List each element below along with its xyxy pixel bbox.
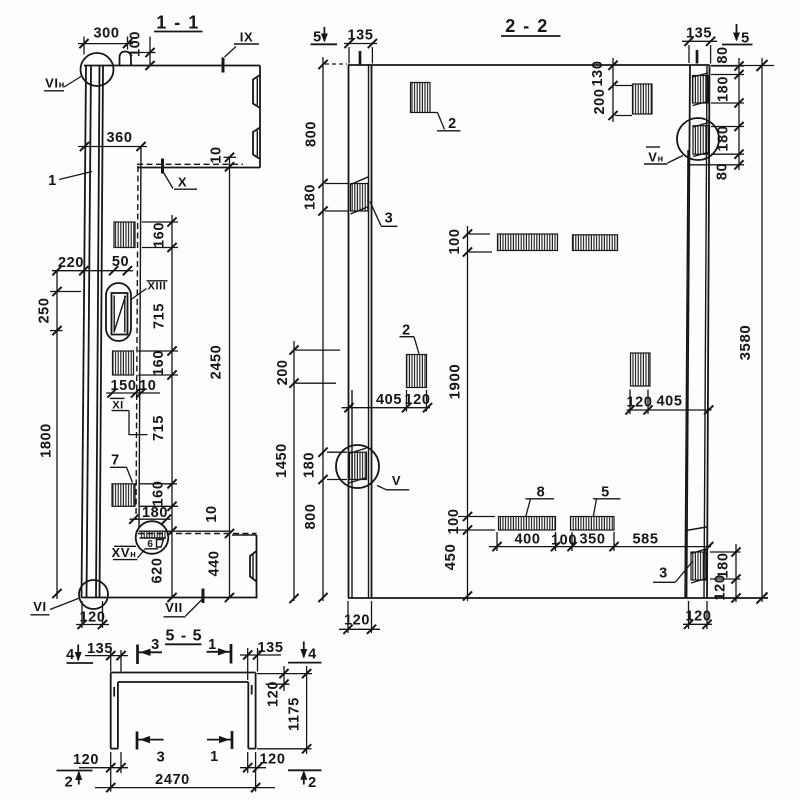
right column line 4 bbox=[707, 65, 710, 598]
svg-text:120: 120 bbox=[344, 613, 370, 629]
top flange hidden edge dashed bbox=[137, 163, 243, 165]
svg-text:3: 3 bbox=[385, 211, 394, 227]
rib line 1 bbox=[82, 66, 87, 598]
part label 5 bbox=[593, 485, 621, 517]
dimension 135 top right 5-5 bbox=[240, 640, 284, 680]
svg-text:10: 10 bbox=[139, 378, 156, 394]
rib inner solid line bbox=[139, 147, 141, 527]
dimension 135 right 2-2 bbox=[682, 26, 717, 64]
svg-text:4: 4 bbox=[308, 647, 317, 663]
dimension chain 160-715 bbox=[150, 215, 177, 602]
panel 1-1 right edge bbox=[259, 66, 261, 168]
svg-text:1: 1 bbox=[48, 173, 57, 189]
section arrow 5 right bbox=[722, 24, 753, 47]
svg-text:800: 800 bbox=[304, 121, 320, 147]
embedded item 2 middle right bbox=[631, 353, 651, 386]
dimension 120 bottom left bbox=[76, 601, 109, 629]
svg-text:135: 135 bbox=[258, 640, 284, 656]
svg-text:3: 3 bbox=[157, 750, 166, 766]
svg-text:120: 120 bbox=[686, 609, 712, 625]
svg-text:5 - 5: 5 - 5 bbox=[165, 628, 202, 645]
embedded item 3 left column top bbox=[351, 177, 369, 214]
dimension row 400-100-350-585 bbox=[489, 532, 713, 552]
node label XI bbox=[110, 398, 148, 434]
top flange bottom edge bbox=[137, 167, 260, 169]
dimension chain 200-1450 bbox=[274, 341, 340, 603]
node label VII bbox=[164, 589, 204, 617]
embedded item hatch mid bbox=[113, 351, 134, 375]
svg-text:4: 4 bbox=[66, 647, 75, 663]
part label 3 left bbox=[370, 202, 398, 227]
svg-text:300: 300 bbox=[94, 26, 120, 42]
rib line 3 bbox=[96, 66, 100, 598]
svg-text:1: 1 bbox=[210, 749, 219, 765]
section arrow 5 left bbox=[311, 27, 338, 46]
dimension 360 bbox=[78, 130, 147, 151]
svg-text:5: 5 bbox=[313, 30, 322, 46]
svg-text:135: 135 bbox=[348, 28, 374, 44]
svg-text:3: 3 bbox=[659, 566, 668, 582]
keyway notch upper right 1 bbox=[253, 75, 260, 108]
view 2-2 title bbox=[501, 16, 561, 36]
section arrow 3 top bbox=[138, 637, 163, 664]
svg-text:120: 120 bbox=[266, 681, 282, 707]
svg-text:160: 160 bbox=[151, 350, 167, 376]
svg-text:50: 50 bbox=[112, 254, 129, 270]
extension lines chain 160-715 bbox=[138, 222, 178, 506]
node label V bbox=[377, 473, 409, 490]
svg-text:1900: 1900 bbox=[447, 364, 464, 400]
node circle Vn bbox=[677, 118, 719, 160]
embedded item XIII oval bbox=[106, 283, 131, 341]
svg-text:80: 80 bbox=[715, 46, 731, 63]
svg-text:120: 120 bbox=[73, 752, 99, 768]
lifting loop bbox=[120, 52, 132, 66]
node circle V bbox=[336, 445, 379, 488]
svg-text:405: 405 bbox=[376, 392, 402, 408]
embedded item hatch top bbox=[114, 222, 135, 248]
svg-text:IX: IX bbox=[240, 30, 253, 45]
dimension 150 and 10 bbox=[106, 378, 160, 397]
svg-text:7: 7 bbox=[111, 453, 120, 469]
dimension chain 180-120 bottom right bbox=[710, 544, 741, 603]
svg-text:130: 130 bbox=[590, 61, 606, 87]
svg-text:715: 715 bbox=[151, 415, 167, 441]
svg-text:200: 200 bbox=[275, 359, 291, 385]
svg-text:450: 450 bbox=[442, 544, 459, 571]
panel 2-2 bottom edge bbox=[348, 597, 768, 599]
svg-text:350: 350 bbox=[580, 532, 606, 548]
dimension 120 bottom right 5-5 bbox=[240, 752, 286, 792]
dimension 135 left 2-2 bbox=[344, 28, 377, 64]
section arrow 2 left bbox=[57, 771, 93, 791]
hatch strip mid row 2 bbox=[573, 235, 618, 251]
node circle XVn bbox=[136, 521, 169, 554]
svg-text:800: 800 bbox=[303, 504, 319, 530]
svg-text:X: X bbox=[178, 175, 187, 190]
embedded item B right column bbox=[693, 123, 709, 157]
svg-text:XIII: XIII bbox=[148, 281, 167, 293]
svg-text:1175: 1175 bbox=[287, 697, 303, 731]
dimension 180 at XVn bbox=[129, 505, 171, 524]
svg-text:100: 100 bbox=[128, 31, 144, 57]
svg-text:120: 120 bbox=[260, 752, 286, 768]
svg-text:2: 2 bbox=[308, 775, 317, 791]
dimension chain 2450-440 bbox=[204, 157, 234, 602]
panel 1-1 top edge bbox=[84, 65, 260, 67]
svg-text:1: 1 bbox=[208, 637, 217, 653]
svg-text:160: 160 bbox=[152, 222, 168, 248]
embedded item 7 hatch bbox=[112, 484, 135, 507]
hatch strip mid row 1 bbox=[498, 234, 558, 251]
section mark X bbox=[163, 159, 198, 190]
svg-text:180: 180 bbox=[303, 184, 319, 210]
svg-text:180: 180 bbox=[716, 76, 732, 102]
section arrow 1 bottom bbox=[207, 731, 232, 765]
node label XVn bbox=[112, 545, 145, 560]
right column line 2 bbox=[685, 150, 688, 598]
dimension 3580 bbox=[711, 58, 774, 604]
view 1-1 title bbox=[154, 13, 203, 33]
left column line 2 bbox=[351, 390, 353, 598]
right column top tick bbox=[696, 50, 699, 64]
left column line 1 bbox=[348, 65, 350, 598]
svg-text:2: 2 bbox=[65, 775, 74, 791]
svg-text:V: V bbox=[392, 473, 401, 488]
rib line 2 bbox=[87, 66, 92, 598]
svg-text:220: 220 bbox=[58, 255, 84, 271]
dimension chain 130-200 bbox=[590, 58, 632, 122]
svg-text:200: 200 bbox=[592, 89, 608, 115]
embedded item 3 left column middle bbox=[349, 448, 367, 483]
section mark IX bbox=[223, 30, 259, 73]
keyway notch upper right 2 bbox=[253, 128, 260, 160]
node circle VI bottom bbox=[79, 580, 108, 609]
svg-text:2470: 2470 bbox=[155, 772, 190, 788]
bottom flange hidden top edge dashed bbox=[138, 533, 257, 535]
dimension 135 top left 5-5 bbox=[85, 641, 128, 672]
node label VIn bbox=[44, 76, 81, 91]
svg-text:1 - 1: 1 - 1 bbox=[156, 13, 200, 33]
hatch strip 5 bbox=[571, 517, 615, 531]
dimension 10 top bbox=[209, 146, 237, 171]
section arrow 3 bottom bbox=[137, 732, 165, 766]
rib inner dashed line bbox=[136, 166, 138, 520]
embedded item C right column bbox=[686, 527, 707, 583]
section arrow 1 top bbox=[207, 637, 232, 664]
svg-text:585: 585 bbox=[633, 532, 659, 548]
dimension chain 80-180 right bbox=[687, 46, 744, 180]
svg-text:120: 120 bbox=[80, 610, 106, 626]
svg-text:10: 10 bbox=[204, 505, 220, 522]
svg-text:10: 10 bbox=[209, 146, 225, 163]
left column line 4 bbox=[371, 65, 373, 598]
dimension 220 and 50 bbox=[52, 254, 133, 275]
panel 2-2 top edge bbox=[348, 64, 710, 66]
panel 1-1 bottom edge bbox=[82, 597, 258, 599]
svg-text:400: 400 bbox=[515, 532, 541, 548]
dimension 120 bottom left 5-5 bbox=[73, 752, 128, 792]
svg-text:2 - 2: 2 - 2 bbox=[505, 16, 549, 36]
svg-text:1450: 1450 bbox=[274, 443, 290, 478]
dimension 120-405 right bbox=[625, 390, 713, 415]
svg-text:180: 180 bbox=[302, 452, 318, 478]
rib line 4 bbox=[100, 66, 104, 598]
dimension 100 vertical bbox=[128, 31, 156, 70]
embedded item 2 middle left bbox=[407, 355, 427, 388]
bottom flange top right solid bbox=[232, 534, 257, 536]
corner tick left bbox=[113, 687, 115, 697]
embedded item 2 top left bbox=[411, 83, 431, 113]
node circle VIn top bbox=[81, 53, 114, 86]
dimension 300 bbox=[78, 26, 133, 55]
left column top tick bbox=[359, 51, 362, 65]
dimension 2470 bbox=[95, 772, 275, 792]
svg-text:135: 135 bbox=[87, 641, 113, 657]
right column line 3 bbox=[704, 65, 707, 598]
hatch strip 8 bbox=[499, 517, 556, 531]
dimension 120 flange thickness bbox=[257, 666, 312, 707]
svg-text:180: 180 bbox=[142, 505, 168, 521]
bottom flange right edge bbox=[256, 535, 258, 598]
part label 7 bbox=[110, 453, 133, 483]
dimension 120 below right column bbox=[683, 601, 712, 629]
part label 3 bottom right bbox=[653, 562, 693, 583]
dimension chain 250-1800 bbox=[37, 271, 82, 599]
section arrow 4 left bbox=[66, 645, 93, 664]
channel section outline bbox=[111, 673, 256, 749]
svg-text:360: 360 bbox=[107, 130, 133, 146]
detail 6 weld strip bbox=[139, 531, 168, 550]
embedded item A right column bbox=[693, 73, 709, 106]
part label 8 bbox=[526, 485, 555, 517]
svg-text:405: 405 bbox=[657, 394, 683, 410]
svg-text:3580: 3580 bbox=[737, 325, 754, 361]
view 5-5 title bbox=[165, 628, 203, 645]
dimension chain left 800-180 bbox=[302, 57, 349, 602]
svg-text:135: 135 bbox=[686, 26, 712, 42]
dimension 120 below left column bbox=[339, 601, 380, 634]
node label Vn bbox=[644, 147, 683, 165]
dimension 405-120 left bbox=[342, 390, 433, 412]
svg-text:150: 150 bbox=[111, 378, 137, 394]
svg-text:2450: 2450 bbox=[209, 345, 225, 380]
svg-text:250: 250 bbox=[37, 298, 53, 324]
node label XIII bbox=[131, 281, 168, 300]
part label 2 middle bbox=[400, 323, 420, 354]
dimension chain 100-1900-100-450 bbox=[442, 226, 495, 601]
svg-text:1800: 1800 bbox=[39, 423, 55, 458]
left column line 3 bbox=[368, 65, 370, 598]
embedded item 2 top right bbox=[633, 84, 653, 114]
svg-text:715: 715 bbox=[152, 303, 168, 329]
svg-text:440: 440 bbox=[207, 551, 223, 577]
svg-text:2: 2 bbox=[448, 116, 457, 132]
part label 1 bbox=[48, 172, 92, 190]
svg-text:3: 3 bbox=[151, 637, 160, 653]
dimension 1175 bbox=[257, 666, 312, 754]
svg-text:XI: XI bbox=[112, 400, 124, 412]
section arrow 2 right bbox=[288, 770, 322, 791]
keyway notch lower right bbox=[250, 551, 257, 582]
bottom flange inner line bbox=[167, 530, 231, 532]
svg-text:620: 620 bbox=[150, 558, 166, 584]
svg-text:VII: VII bbox=[165, 600, 183, 615]
node label VI bbox=[31, 598, 80, 615]
corner tick right bbox=[251, 685, 253, 695]
part label 2 top bbox=[430, 113, 461, 133]
svg-text:VI: VI bbox=[33, 599, 46, 614]
svg-text:100: 100 bbox=[447, 229, 463, 255]
section arrow 4 right bbox=[288, 642, 322, 663]
right column line 1 bbox=[687, 65, 691, 598]
